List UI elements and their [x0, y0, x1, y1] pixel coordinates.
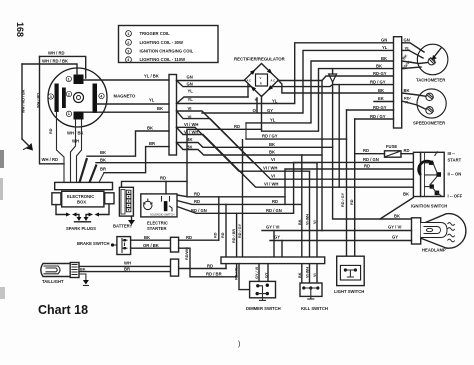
- wire BR (electronic box to J1): [90, 141, 254, 182]
- wire RD/YL (J2 to speedometer): [402, 97, 426, 110]
- wire RD/YL (J2 to tachometer bulb): [402, 59, 421, 71]
- lighting coil (4) right: [93, 84, 105, 114]
- wire RD (starter to ignition): [177, 164, 413, 205]
- wire RD/GY (regulator to light switch): [246, 133, 347, 139]
- wire BK (J1 to headlamp return): [177, 137, 333, 147]
- wire RD (rectifier + to battery net): [187, 69, 394, 197]
- wire VI (J1 to kill switch line): [177, 106, 318, 163]
- svg-text:BK: BK: [100, 150, 106, 155]
- svg-text:VI: VI: [271, 174, 275, 179]
- headlamp: [412, 214, 466, 253]
- svg-text:BK: BK: [100, 158, 106, 163]
- svg-text:V: V: [260, 76, 262, 80]
- wire RD/GY vertical (to connector bar J3): [238, 140, 243, 257]
- light switch: [334, 256, 364, 294]
- svg-text:1: 1: [68, 77, 70, 81]
- svg-text:YL: YL: [382, 45, 388, 50]
- svg-text:BR: BR: [149, 141, 155, 146]
- ground (battery): [128, 216, 135, 225]
- svg-text:BK: BK: [404, 88, 410, 93]
- svg-text:WH: WH: [72, 139, 79, 144]
- svg-text:BK: BK: [403, 191, 409, 196]
- svg-text:RD: RD: [49, 128, 53, 134]
- svg-text:3: 3: [50, 95, 52, 99]
- wire GY vertical drop to J3: [281, 241, 283, 258]
- svg-text:DIMMER SWITCH: DIMMER SWITCH: [246, 306, 281, 311]
- svg-text:LIGHTING COIL - 30W: LIGHTING COIL - 30W: [140, 40, 183, 45]
- svg-text:RD: RD: [214, 232, 218, 238]
- svg-text:RD-GY: RD-GY: [373, 71, 387, 76]
- wire WH/RD/BK (trigger to ground drop): [22, 59, 77, 75]
- labels VI and VI/WH mid lines: [271, 157, 275, 162]
- svg-text:IGNITION CHARGING COIL: IGNITION CHARGING COIL: [140, 49, 194, 54]
- svg-text:VI: VI: [271, 157, 275, 162]
- wire RD/GY (down to GY/VI junction): [321, 81, 323, 231]
- svg-text:III --: III --: [448, 151, 456, 156]
- scan artifact left edge: [0, 150, 5, 299]
- wire RD/WH (brake connector down): [179, 247, 223, 277]
- connector bar J1: [169, 75, 177, 156]
- wire GY/VI (to headlamp): [262, 225, 412, 231]
- svg-text:RD: RD: [364, 164, 370, 169]
- svg-text:RD: RD: [160, 176, 166, 181]
- svg-text:RD: RD: [186, 235, 192, 240]
- legend item 3 ignition charging coil: [126, 48, 194, 54]
- svg-text:BK: BK: [381, 56, 387, 61]
- label RD-GY lower at J2: [373, 105, 387, 110]
- speedometer: [413, 89, 446, 126]
- wire YL (lower to J2): [246, 61, 394, 139]
- svg-text:RD: RD: [194, 191, 200, 196]
- label BK lower line: [269, 150, 275, 155]
- wire OR/BK (brake switch to connector): [131, 243, 171, 248]
- svg-text:OR / BK: OR / BK: [143, 243, 159, 248]
- svg-text:VI / WH: VI / WH: [263, 166, 277, 171]
- svg-text:RD / GN: RD / GN: [363, 157, 379, 162]
- svg-text:RD / GY: RD / GY: [262, 133, 278, 138]
- lighting coil (2) inner left: [62, 88, 72, 109]
- svg-text:KILL SWITCH: KILL SWITCH: [301, 306, 328, 311]
- wire RD/GY lower (to J2): [370, 114, 386, 119]
- wire RD (starter to brake circuit): [177, 191, 285, 197]
- svg-text:YL: YL: [188, 97, 194, 102]
- svg-text:II -- ON: II -- ON: [448, 172, 462, 177]
- wire RD/GY vertical (to light switch): [341, 110, 394, 256]
- svg-text:RD: RD: [363, 148, 369, 153]
- wire BK (electronic box to J1): [80, 126, 170, 183]
- wire RD (brake connector to main harness): [179, 197, 219, 240]
- svg-text:3: 3: [127, 50, 129, 54]
- svg-text:HEADLAMP: HEADLAMP: [422, 248, 446, 253]
- tachometer: [416, 44, 448, 82]
- svg-text:2: 2: [127, 41, 129, 45]
- svg-text:Chart 18: Chart 18: [38, 303, 88, 317]
- svg-text:GY: GY: [274, 234, 280, 239]
- wire RD (taillight connector to harness): [179, 204, 226, 268]
- svg-text:SPARK PLUGS: SPARK PLUGS: [66, 226, 96, 231]
- wire GN (J2 to tachometer): [402, 38, 424, 53]
- trigger coil (1) top: [66, 75, 83, 85]
- label VI/WH ignition line: [264, 182, 278, 187]
- wire VI/WH second (J1 to ignition line): [177, 127, 414, 187]
- svg-text:A C: A C: [271, 78, 276, 82]
- svg-text:IGNITION SWITCH: IGNITION SWITCH: [411, 204, 447, 209]
- svg-text:): ): [238, 341, 240, 348]
- svg-text:TRIGGER COIL: TRIGGER COIL: [140, 31, 171, 36]
- svg-text:O: O: [253, 108, 257, 113]
- svg-text:START: START: [448, 158, 462, 163]
- svg-text:RD: RD: [194, 199, 200, 204]
- svg-text:WH / RD: WH / RD: [42, 157, 59, 162]
- wire BK (down to headlamp): [333, 82, 412, 219]
- wire BK (J2 to tachometer bulb): [402, 54, 428, 64]
- wire WH/BK (magneto to electronic box): [67, 120, 84, 183]
- wire GY (J3 to dimmer): [265, 264, 269, 282]
- wire WH (magneto to electronic box): [72, 120, 82, 183]
- svg-text:FUSE: FUSE: [386, 144, 397, 149]
- svg-text:GN: GN: [187, 81, 193, 86]
- ignition charging coil (3) left: [48, 84, 59, 113]
- coil bottom: [66, 111, 83, 119]
- svg-text:BK: BK: [157, 106, 163, 111]
- label GN at J2 left: [381, 38, 387, 43]
- wire YL (J2 to tachometer): [402, 46, 423, 58]
- legend box: [119, 26, 219, 63]
- wire RD (battery positive feed): [122, 176, 188, 194]
- svg-text:1: 1: [68, 112, 70, 116]
- brake switch: [77, 237, 131, 255]
- svg-text:ELECTRONIC: ELECTRONIC: [67, 194, 94, 199]
- svg-text:WH / RD: WH / RD: [48, 51, 65, 56]
- taillight: [41, 263, 79, 285]
- page number 168: [15, 22, 25, 37]
- svg-text:WH: WH: [124, 261, 131, 266]
- electric starter: [141, 194, 177, 231]
- svg-text:RD / BR: RD / BR: [232, 229, 236, 243]
- label BK at J2 left: [381, 56, 387, 61]
- svg-text:VI / WH: VI / WH: [184, 122, 198, 127]
- battery: [113, 187, 133, 228]
- wire WH (taillight to connector): [79, 261, 171, 267]
- svg-text:168: 168: [15, 22, 25, 37]
- legend item 2 lighting coil 30W: [126, 39, 183, 45]
- wire BR (taillight to connector): [79, 266, 171, 271]
- label VI ignition line: [271, 174, 275, 179]
- svg-text:LIGHT SWITCH: LIGHT SWITCH: [334, 289, 364, 294]
- svg-text:BK: BK: [269, 150, 275, 155]
- svg-text:YL: YL: [188, 89, 194, 94]
- label BK mid: [269, 142, 275, 147]
- svg-text:GY / VI: GY / VI: [266, 225, 279, 230]
- wire GY/VI vertical drop to J3: [273, 231, 275, 258]
- connector bar J2: [394, 37, 402, 128]
- wire GN (J1 to J2): [177, 75, 394, 81]
- wire GY (regulator to J2): [202, 50, 394, 113]
- svg-text:EK: EK: [378, 96, 384, 101]
- connector (taillight): [171, 259, 179, 276]
- wire VI vertical (kill switch): [313, 163, 317, 283]
- svg-text:BK: BK: [80, 268, 86, 272]
- wire WH/RD/BK vertical to ground: [22, 64, 26, 139]
- svg-text:GY: GY: [267, 108, 273, 113]
- svg-text:YL: YL: [149, 98, 155, 103]
- label YL at J2 left: [382, 45, 388, 50]
- svg-text:GY: GY: [392, 234, 398, 239]
- wire BK (ignition to headlamp return): [380, 191, 413, 219]
- svg-text:MAGNETO: MAGNETO: [114, 94, 137, 99]
- wire WH/RD vertical (to electronic box): [37, 56, 65, 163]
- svg-text:RD / GY: RD / GY: [238, 223, 242, 238]
- wire YL (J1 to rectifier): [177, 80, 249, 104]
- spark plug 1: [56, 205, 84, 222]
- svg-text:GY / VI: GY / VI: [388, 225, 401, 230]
- svg-text:RD-GY: RD-GY: [373, 105, 387, 110]
- svg-text:RD / YL: RD / YL: [234, 266, 238, 280]
- svg-text:I -- OFF: I -- OFF: [448, 194, 463, 199]
- svg-text:BK: BK: [147, 126, 153, 131]
- svg-text:RD / GY: RD / GY: [341, 192, 345, 207]
- svg-text:1: 1: [127, 32, 129, 36]
- wire BK and ground (taillight): [79, 268, 89, 286]
- wire BK (to J2): [374, 96, 394, 102]
- svg-text:BK: BK: [394, 214, 400, 219]
- svg-text:GN: GN: [381, 38, 387, 43]
- wire GY (to headlamp): [270, 234, 412, 240]
- svg-text:TAILLIGHT: TAILLIGHT: [42, 279, 64, 284]
- label RD-GY at J2 left: [373, 71, 387, 76]
- stray mark: [238, 341, 240, 348]
- fuse F1: [355, 144, 414, 157]
- wire RD/BR (harness down): [206, 213, 237, 276]
- svg-text:BRAKE SWITCH: BRAKE SWITCH: [77, 241, 110, 246]
- svg-text:2: 2: [68, 92, 70, 96]
- svg-text:RD / GY: RD / GY: [370, 114, 386, 119]
- legend item 1 trigger coil: [126, 31, 171, 37]
- wire YL/BK (magneto to J1): [84, 74, 170, 80]
- wire BK second (J1 to kill switch): [177, 143, 323, 156]
- svg-text:LIGHTING COIL - 110W: LIGHTING COIL - 110W: [140, 57, 186, 62]
- chart title: [38, 303, 88, 317]
- wire VI/WH vertical (kill switch): [306, 171, 310, 283]
- arrow junction symbol: [329, 69, 337, 82]
- wire RD/GN (starter to ignition): [177, 157, 413, 213]
- svg-text:RECTIFIER/REGULATOR: RECTIFIER/REGULATOR: [234, 57, 286, 62]
- rectifier/regulator U1: [234, 57, 286, 114]
- svg-text:RD: RD: [221, 232, 225, 238]
- svg-text:VI / WH: VI / WH: [184, 129, 198, 134]
- wire YL second (J1 to J2): [177, 43, 394, 104]
- svg-text:BK: BK: [269, 142, 275, 147]
- wire BK (J2 to speedometer): [402, 88, 426, 97]
- connector bar J3 (horizontal): [221, 257, 325, 264]
- wire GN second (J1 to J2): [177, 81, 394, 87]
- svg-text:RD / GY: RD / GY: [370, 79, 386, 84]
- svg-text:BK: BK: [376, 63, 382, 68]
- label BK2 at J2 left: [376, 63, 382, 68]
- wire RD (magneto to electronic box): [49, 112, 64, 183]
- svg-text:VI / WH: VI / WH: [264, 182, 278, 187]
- svg-text:YL: YL: [272, 99, 278, 104]
- svg-text:RD: RD: [207, 263, 213, 268]
- svg-text:GN: GN: [404, 38, 410, 43]
- wire (harness vertical): [338, 85, 340, 188]
- svg-text:RD / BR: RD / BR: [206, 272, 222, 277]
- wire RD vertical (fuse feed): [350, 119, 394, 256]
- svg-text:R: R: [260, 82, 262, 86]
- legend item 4 lighting coil 110W: [126, 57, 185, 63]
- svg-text:BR: BR: [124, 266, 130, 271]
- wire RD/YL (J3 to dimmer): [234, 264, 249, 290]
- electronic box: [52, 182, 114, 207]
- svg-text:GN: GN: [187, 75, 193, 80]
- wire VI second (J1 to ignition line): [177, 111, 414, 179]
- svg-text:BOX: BOX: [77, 199, 86, 204]
- svg-text:ELECTRIC: ELECTRIC: [147, 220, 168, 225]
- dimmer switch: [246, 281, 281, 311]
- svg-text:BATTERY: BATTERY: [113, 224, 133, 229]
- svg-text:BK: BK: [378, 88, 384, 93]
- svg-text:WH / RD / BK: WH / RD / BK: [42, 59, 68, 64]
- rotor: [74, 93, 84, 103]
- ignition switch S1: [411, 151, 463, 209]
- svg-text:A C: A C: [247, 78, 252, 82]
- kill switch: [300, 283, 328, 311]
- wire BK (to J2 speedo): [378, 88, 384, 93]
- ground (magneto): [22, 139, 33, 151]
- magneto body: [48, 68, 136, 127]
- svg-text:SOLENOID SWITCH: SOLENOID SWITCH: [150, 212, 174, 216]
- svg-text:TACHOMETER: TACHOMETER: [416, 78, 445, 83]
- label VI/WH kill line: [263, 166, 277, 171]
- svg-text:YL / BK: YL / BK: [144, 74, 159, 79]
- svg-text:VI: VI: [188, 106, 192, 111]
- wire BK vertical (kill switch): [298, 155, 302, 283]
- svg-text:YL: YL: [270, 117, 276, 122]
- wire WH/RD (trigger to left drop): [40, 51, 86, 78]
- connector (brake): [171, 237, 179, 252]
- svg-text:RD: RD: [234, 124, 240, 129]
- svg-text:SPEEDOMETER: SPEEDOMETER: [413, 121, 445, 126]
- wire BK (magneto to J1): [84, 106, 170, 112]
- svg-text:RD: RD: [404, 148, 410, 153]
- wire VI/WH (J1 to kill switch line): [177, 122, 310, 171]
- wire GY/VI (J3 to dimmer): [255, 264, 259, 282]
- svg-text:BK: BK: [144, 235, 150, 240]
- svg-text:RD: RD: [272, 199, 278, 204]
- wire BK (brake switch to connector): [131, 235, 171, 240]
- svg-text:RD / GN: RD / GN: [266, 208, 282, 213]
- wire YL (rectifier right AC to J2): [272, 80, 394, 104]
- svg-text:STARTER: STARTER: [147, 226, 166, 231]
- wire RD/GY (to J2): [370, 79, 386, 84]
- svg-text:RD: RD: [350, 199, 354, 205]
- spark plug 2: [66, 205, 109, 231]
- wire YL (magneto to J1): [97, 98, 169, 104]
- svg-text:BR: BR: [100, 166, 106, 171]
